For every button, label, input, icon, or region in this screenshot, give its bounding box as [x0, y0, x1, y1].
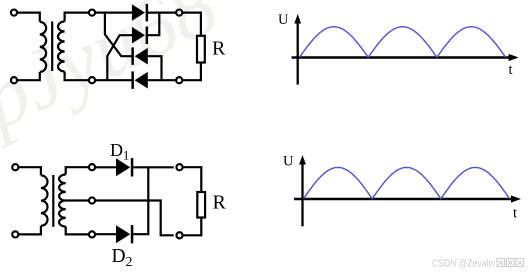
- wire: bottom rail left (secondary bottom to VD4 cathode): [95, 79, 132, 81]
- wire: T2 secondary top lead: [66, 167, 90, 174]
- svg-text:CSDN @Zevalin: CSDN @Zevalin: [432, 259, 495, 270]
- transformer T2 primary terminal (top): [12, 164, 18, 170]
- diode VD4: [131, 71, 147, 89]
- wire: VD2 cathode riser to top rail: [148, 13, 159, 36]
- axis: t horizontal axis (top graph): [292, 54, 519, 61]
- wire: T1 primary bottom lead: [17, 72, 40, 80]
- wire: T2 center tap lead: [66, 199, 90, 201]
- axis: U vertical axis (bottom graph): [299, 155, 306, 226]
- wire: cross link B (VD2 anode to bottom rail junction): [107, 35, 132, 81]
- wire: T1 secondary bottom lead: [65, 72, 90, 81]
- node: rectifier output terminal (bottom): [176, 77, 182, 83]
- node: output terminal top (bottom circuit): [176, 164, 182, 170]
- svg-text:R: R: [212, 38, 226, 60]
- wire: top rail left (secondary top to VD1 anode): [95, 12, 132, 14]
- waveform: full-wave rectified sine (bottom graph): [304, 167, 510, 198]
- wire: T2 primary top lead: [18, 167, 41, 175]
- wire: bottom rail right (VD4 anode to output node): [148, 79, 177, 81]
- transformer T2 primary winding: [41, 175, 48, 225]
- svg-text:D2: D2: [112, 246, 133, 269]
- wire: top branch left (terminal to D1 anode): [95, 166, 116, 168]
- transformer T1 core: [51, 22, 53, 72]
- wire: T2 secondary bottom lead: [66, 227, 90, 235]
- svg-text:R: R: [213, 192, 227, 214]
- transformer T1 secondary winding: [58, 22, 65, 72]
- transformer T1 primary winding: [40, 22, 46, 72]
- svg-text:D1: D1: [110, 140, 129, 163]
- svg-text:t: t: [509, 62, 513, 78]
- svg-text:t: t: [513, 206, 517, 222]
- diode VD2: [132, 27, 148, 45]
- diode VD1: [132, 4, 148, 22]
- node: secondary bottom terminal: [89, 77, 95, 83]
- node: rectifier output terminal (top): [176, 10, 182, 16]
- wire: VD3 anode drop to bottom rail: [148, 56, 162, 80]
- node: secondary bottom terminal (T2): [89, 231, 95, 237]
- wire: T2 primary bottom lead: [18, 226, 41, 235]
- diode D2: [116, 225, 133, 243]
- node: center tap terminal (T2): [89, 197, 95, 203]
- transformer T1 primary terminal (bottom): [11, 77, 17, 83]
- diode D1: [116, 158, 133, 176]
- transformer T2 core: [52, 175, 54, 227]
- waveform: full-wave rectified sine (top graph): [300, 27, 506, 58]
- label: CSDN watermark: [432, 259, 524, 270]
- axis: t horizontal axis (bottom graph): [294, 195, 521, 202]
- transformer T1 primary terminal (top): [11, 10, 17, 16]
- diode VD3: [131, 47, 147, 65]
- resistor R (top circuit): [197, 36, 205, 63]
- wire: T1 primary top lead: [17, 13, 40, 22]
- transformer T2 secondary winding: [59, 175, 66, 227]
- wire: output bottom to resistor R: [182, 63, 201, 81]
- svg-text:pJyu68: pJyu68: [0, 0, 231, 150]
- node: secondary top terminal (T2): [89, 164, 95, 170]
- wire: top rail right (VD1 cathode to output node): [148, 12, 176, 14]
- svg-text:U: U: [278, 12, 289, 28]
- node: secondary top terminal: [89, 10, 95, 16]
- transformer T2 primary terminal (bottom): [12, 231, 18, 237]
- wire: center tap run and drop to bottom output: [95, 201, 174, 236]
- wire: common cathode link (D1 node down to D2 cathode): [133, 167, 148, 234]
- axis: U vertical axis (top graph): [294, 14, 301, 85]
- wire: output bottom to resistor R (bottom circuit): [182, 218, 201, 236]
- resistor R (bottom circuit): [197, 192, 205, 218]
- wire: T1 secondary top lead: [65, 13, 90, 22]
- svg-text:U: U: [283, 154, 294, 170]
- wire: top branch right (D1 cathode to output terminal): [133, 166, 174, 168]
- node: output terminal bottom (bottom circuit): [176, 232, 182, 238]
- wire: bottom branch left (terminal to D2 anode): [95, 233, 116, 235]
- wire: cross link A (top rail junction to VD3 cathode): [105, 12, 132, 57]
- wire: output top to resistor R (bottom circuit): [182, 167, 201, 192]
- wire: output top to resistor R: [182, 13, 201, 36]
